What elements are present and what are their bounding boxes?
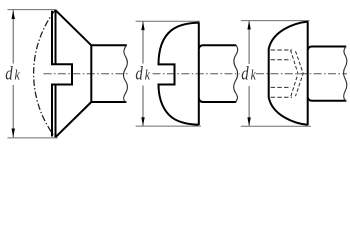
dash-dot arc (oval head alternative) F1 [34,10,55,137]
head dome arc top F2 [159,23,199,65]
break wavy line F3 [344,46,347,101]
shank top with fillet F2 [199,45,236,49]
recess cone V1 F3 [291,50,299,97]
arrow down F1 [12,129,15,138]
head right face F3 [307,21,309,125]
recess hidden inner top F3 [271,59,291,61]
extension line bottom F1 [8,137,58,139]
extension line top F3 [241,20,310,22]
dimension line F3 [248,21,250,64]
extension line top F2 [136,20,200,22]
head face line (outer) F1 [55,10,57,137]
dimension line F2 [142,22,144,64]
recess hidden outer top F3 [271,49,292,51]
cone lower F1 [56,102,92,137]
arrow up F1 [12,10,15,19]
extension line bottom F3 [241,125,311,127]
shank bottom with fillet F2 [199,99,237,103]
recess hidden inner bottom F3 [271,86,291,88]
shank top with fillet F3 [308,47,347,51]
head dome arc bottom F2 [159,85,199,125]
arrow up F3 [247,21,250,30]
dimension line F1 [12,10,14,63]
centerline axis F3 [256,73,347,75]
head face line (inner) F1 [51,11,53,137]
centerline axis F2 [153,73,240,75]
shank bottom with fillet F3 [308,97,347,101]
recess cone V2 F3 [296,51,304,96]
arrow down F3 [247,117,250,126]
cone end face F1 [90,45,92,102]
break wavy line F1 [123,45,127,102]
arrow up F2 [141,21,144,30]
arrow down F2 [141,117,144,126]
shank top F1 [91,44,127,46]
cone upper F1 [56,10,92,45]
recess hidden outer bottom F3 [271,96,292,98]
shank bottom F1 [91,101,126,103]
slot F1 [51,64,72,84]
break wavy line F2 [234,45,238,102]
slot F2 [158,64,175,84]
extension line top F1 [8,9,57,11]
head outline F3 [269,22,308,125]
head right face F2 [198,22,200,125]
centerline axis F1 [44,73,129,75]
extension line bottom F2 [136,125,201,127]
